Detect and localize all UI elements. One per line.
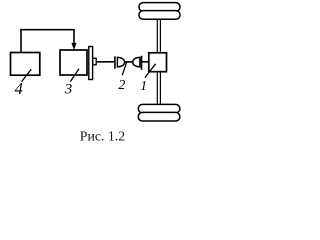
propeller shaft segment <box>96 61 115 63</box>
top wheel lower tire <box>139 11 180 20</box>
axle upper left line <box>156 19 158 53</box>
wire from box 4 to box 3 <box>21 30 74 53</box>
shaft into box 1 <box>142 61 149 63</box>
leader line for label 3 <box>70 69 79 82</box>
svg-text:4: 4 <box>15 79 23 98</box>
svg-text:1: 1 <box>140 78 147 93</box>
svg-text:Рис. 1.2: Рис. 1.2 <box>80 129 125 144</box>
box 4 (engine block) <box>11 53 40 76</box>
box 3 (generator block) <box>60 50 87 75</box>
shaft between joints <box>125 61 133 63</box>
axle lower left line <box>156 72 158 105</box>
box 1 (final drive) <box>149 53 167 72</box>
leader line for label 2 <box>122 62 127 75</box>
leader line for label 1 <box>145 64 156 78</box>
universal joint 1 (right) cross bar <box>141 56 143 70</box>
flange plate on box 3 shaft <box>89 47 93 80</box>
bottom wheel upper tire <box>138 104 180 113</box>
universal joint 2 (left) cross bar <box>114 56 116 68</box>
svg-text:2: 2 <box>118 78 125 93</box>
universal joint 2 (left) fork <box>117 57 124 67</box>
axle lower right line <box>159 72 161 105</box>
top wheel upper tire <box>139 3 180 12</box>
universal joint 1 (right) fork <box>133 57 140 67</box>
arrowhead into box 3 <box>72 43 77 50</box>
leader line for label 4 <box>22 69 32 81</box>
shaft hub stub <box>93 58 96 65</box>
axle upper right line <box>159 19 161 53</box>
bottom wheel lower tire <box>138 112 180 121</box>
svg-text:3: 3 <box>64 81 73 97</box>
